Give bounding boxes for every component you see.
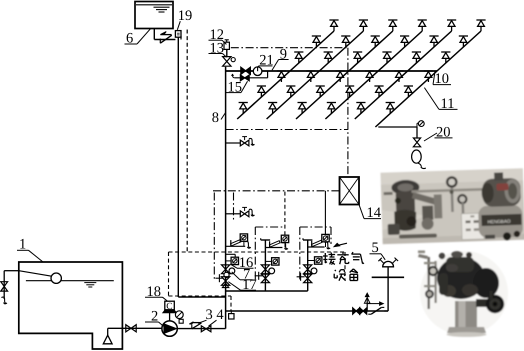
branch pipe 5 [355,31,452,119]
controller box 18 [165,301,175,310]
test drain valve [413,138,420,147]
alarm check branch [265,247,282,249]
test valve 15 [240,75,249,81]
wire: suction line to pump [108,327,162,329]
suction valve [126,325,136,332]
svg-text:HENGBAO: HENGBAO [487,219,511,225]
drain branch line [226,142,241,144]
pressure switch (upper) [322,234,329,241]
tank 6 water surface line [136,4,172,6]
inlet drain curl [1,297,7,304]
signal loop to box 14 [213,190,339,192]
pressure gauge square (lower) [315,257,322,264]
check valve 3 [192,322,201,324]
alarm valve assembly 1 (on riser 8) [226,253,236,255]
svg-text:3 4: 3 4 [206,307,225,323]
wire: inlet drop [3,271,5,299]
alarm valve circle (7) [224,272,229,277]
tank 6 level symbol [154,6,170,8]
wire: riser to pump coupler 5 [387,267,389,311]
small flange square at pump [179,319,183,323]
drain branch valve [240,211,249,217]
pressure gauge 21 [253,67,262,76]
text 设 [334,270,345,281]
branch pipe 2 [267,31,364,119]
pressure gauge square (lower) [272,258,279,265]
end water-test device 20 [416,127,418,138]
angled check valve on bottom line [371,307,381,314]
zone boundary dash-dot lines [231,47,348,49]
wire: collector at assembly bottoms [226,290,308,292]
signal butterfly valve [304,265,312,274]
drain cross tick 2 [255,275,263,277]
branch drain curl [282,243,288,250]
branch pipe 3 [296,31,393,119]
ground line at coupler [372,276,404,278]
funnel drain curl [418,163,426,169]
drain cross tick 3 [297,276,305,278]
makeup inlet valve [1,282,8,291]
test bypass line [235,77,268,79]
drain funnel [412,150,422,163]
signal indicator circle [311,268,317,274]
float ball [51,273,61,283]
dashed equipment-room boundary [169,251,346,253]
text 备 [350,269,358,281]
valve on bottom line (right) [360,308,367,314]
lower shutoff valve [304,274,312,283]
valve on bottom line (left) [353,308,360,314]
pressure switch (upper) [240,234,247,241]
branch pipe 4 [325,31,422,119]
drain cross tick 1 [215,277,223,279]
signal line up to alarm loop [324,191,326,235]
arrow pointing to charging text [337,243,347,245]
signal butterfly valve 13 [223,57,231,67]
drain branch valve [240,140,249,146]
float arm [19,271,52,277]
drain branch curl [249,209,255,216]
wire: makeup inlet [4,270,19,272]
wire: tank outlet drop [153,29,155,40]
zone 2 dash-dot box [255,226,285,228]
wire: tank supply down-pipe [177,37,179,297]
component 19 (liquid level signal device) [175,31,181,38]
gate valve 4 [201,326,211,332]
alarm check branch [226,245,246,247]
sprinkler main 9/10 [226,70,437,72]
pump coupler 5 (siamese connection) [383,261,394,266]
sprinkler heads [329,20,338,31]
reservoir water line [26,280,114,282]
svg-text:C: C [166,302,172,312]
zone riser [307,240,309,291]
suction foot (triangle in sump) [103,335,112,344]
svg-text:9: 9 [280,47,287,63]
pump discharge gauge [175,311,183,319]
photo: alarm valve + air compressor set [380,168,524,244]
check valve on tank outlet [160,34,171,36]
text 接 [323,253,336,265]
reducer below valve [222,283,228,287]
reservoir 1 outline [19,262,123,349]
main gate valve [241,67,251,74]
wire: pump top stub [169,313,171,321]
text 气 [352,252,364,264]
signal line up to alarm loop [284,191,286,235]
automatic air vent 12 [224,42,229,49]
pressure switch (upper) [281,235,288,242]
signal indicator circle [229,268,235,274]
zone 3 dash-dot box [300,226,331,228]
reservoir level symbol [84,282,96,284]
branch drain curl [245,241,251,248]
pressure gauge square (lower) [231,257,238,264]
flange T at top of zone riser [261,239,270,241]
test line drain hook [231,74,235,78]
flange T at top of zone riser [303,239,312,241]
wire: bottom line to pump coupler [226,310,389,312]
wire: pump discharge [177,328,225,330]
pump 2 [162,321,177,336]
signal butterfly valve [261,265,269,274]
alarm check branch [308,246,325,248]
svg-text:8: 8 [212,110,219,126]
drain branch line [226,213,241,215]
pressure switch square at riser foot [229,314,234,319]
branch drain curl [325,242,331,249]
wire: tank outlet horizontal [154,39,175,41]
branch pipe 1 [237,31,334,119]
wire: suction up [107,328,109,335]
wire: end branch to test drain [378,126,417,128]
photo: deluge/alarm valve product [418,251,508,337]
lower shutoff valve [261,274,269,283]
tank 6 (elevated water tank) [135,2,173,29]
riser 8 (main supply riser) [225,67,227,329]
wire: riser to air vent [226,49,228,56]
text 充 [337,252,348,264]
drain branch curl [249,138,255,145]
signal butterfly valve [222,265,230,274]
alarm control box 14 [340,177,360,205]
branch pipe 6 [375,31,481,127]
dashed signal line from tank [186,30,188,253]
controller 18 pedestal [163,310,176,313]
zone riser [264,240,266,291]
signal indicator circle [269,268,275,274]
wire: tank line joins riser [178,296,225,298]
lower shutoff valve 17 [222,277,230,286]
test connection tee with arrow [366,298,368,312]
